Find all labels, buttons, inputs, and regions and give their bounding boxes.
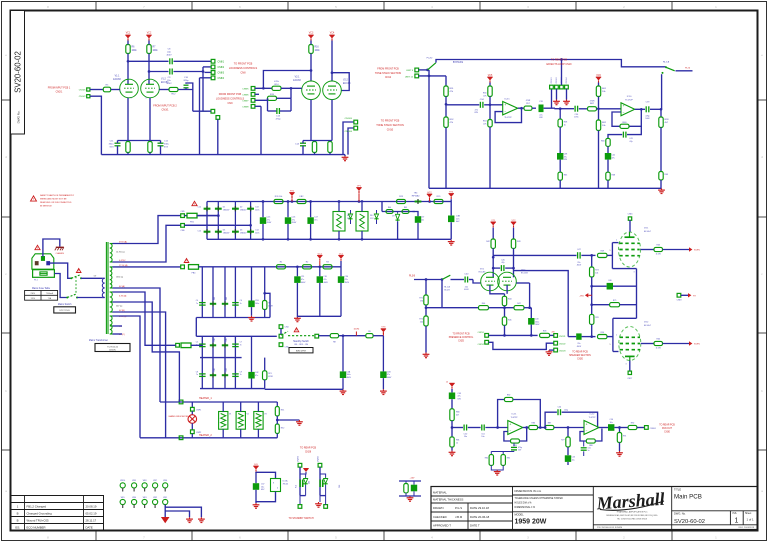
svg-text:DATE T: DATE T: [470, 524, 480, 528]
svg-text:C54: C54: [558, 406, 561, 408]
connector CN21/1: [554, 334, 558, 338]
wire tap to heater1: [113, 288, 161, 402]
wire: [277, 419, 299, 421]
capacitor C34: [479, 102, 481, 108]
wire: [320, 495, 326, 497]
svg-text:VC3: VC3: [309, 33, 314, 35]
svg-text:DRAWN: DRAWN: [433, 506, 443, 510]
svg-text:TX-SV20-60: TX-SV20-60: [107, 346, 119, 348]
connector CN10/6: [354, 126, 358, 130]
svg-text:C4: C4: [196, 300, 198, 302]
warning triangle: [35, 245, 40, 249]
svg-text:TO FRONT PCB: TO FRONT PCB: [381, 120, 400, 123]
svg-text:TO REAR PCB: TO REAR PCB: [659, 423, 675, 426]
svg-text:1k: 1k: [456, 443, 458, 445]
svg-text:78L05: 78L05: [283, 484, 289, 486]
title block: [431, 487, 758, 530]
resistor R81: [450, 437, 454, 447]
diode D12: [210, 303, 216, 305]
cap bank left link: [195, 318, 197, 337]
junction dots: [262, 200, 265, 203]
svg-text:+16V: +16V: [410, 477, 416, 479]
wire: [265, 388, 343, 390]
wire: [661, 74, 663, 109]
svg-text:470p: 470p: [645, 116, 649, 118]
capacitor C45: [505, 267, 513, 269]
resistor R66: [606, 138, 610, 146]
wire: [504, 306, 506, 317]
svg-text:ECC83: ECC83: [521, 273, 529, 275]
svg-text:PRESENCE CONTROL: PRESENCE CONTROL: [449, 337, 474, 339]
svg-text:100n: 100n: [255, 209, 259, 211]
earth wire: [43, 239, 60, 257]
connector CN28/1: [298, 463, 302, 467]
svg-text:D9: D9: [392, 216, 394, 218]
resistor R58: [559, 109, 561, 119]
svg-text:FB1,2 Changed: FB1,2 Changed: [27, 505, 47, 509]
svg-text:10n: 10n: [481, 436, 484, 438]
svg-text:D3: D3: [223, 229, 225, 231]
svg-text:R65: R65: [404, 207, 407, 209]
wire: [303, 140, 332, 142]
standby bus: [196, 335, 276, 337]
terminal SCRN2: [689, 341, 692, 345]
svg-text:R66: R66: [601, 141, 604, 143]
svg-text:−: −: [586, 429, 588, 433]
svg-text:47u: 47u: [314, 219, 317, 221]
wire: [523, 427, 529, 429]
feedback cap C41: [627, 126, 641, 134]
wire: [446, 104, 479, 106]
warning triangle: [31, 196, 37, 201]
supply arrow HT4: [449, 194, 454, 197]
wire: [267, 98, 269, 111]
svg-text:D16: D16: [214, 368, 216, 371]
op-amp IC10: [621, 103, 635, 116]
svg-text:UNIT 9: UNIT 9: [406, 70, 414, 72]
svg-text:400V: 400V: [323, 282, 328, 284]
svg-text:CN8/3: CN8/3: [218, 72, 225, 74]
svg-text:+: +: [509, 422, 511, 426]
wire: [319, 335, 331, 337]
svg-text:1: 1: [735, 518, 739, 525]
svg-text:HEATER_1: HEATER_1: [199, 397, 212, 400]
heater bus 2: [140, 437, 277, 439]
supply arrow: [303, 469, 308, 472]
resistor R63: [654, 247, 663, 251]
svg-text:SV20-60-02: SV20-60-02: [14, 51, 23, 93]
wire: [620, 304, 637, 306]
connector CN2/1: [87, 88, 90, 91]
connector CN8/4: [211, 76, 215, 80]
svg-text:CHECKED: CHECKED: [433, 515, 447, 519]
wire: [90, 96, 102, 154]
wire: [197, 215, 218, 217]
svg-text:WF2: WF2: [153, 497, 157, 499]
cap C4A: [342, 336, 344, 372]
wire: [491, 451, 514, 453]
svg-text:PL20: PL20: [685, 67, 691, 69]
secondary winding 1: [110, 244, 112, 263]
wire: [552, 107, 556, 109]
wire: [641, 108, 645, 110]
diode D11: [305, 474, 307, 478]
wire: [399, 495, 421, 497]
wire: [524, 307, 531, 309]
wire: [81, 277, 102, 279]
svg-text:ECC83: ECC83: [113, 79, 121, 81]
svg-text:47u: 47u: [292, 219, 295, 221]
B+ takeoff 1: [296, 267, 298, 277]
wire: [419, 75, 446, 77]
PSU rail row2: [199, 266, 342, 268]
svg-text:EL34-Z: EL34-Z: [644, 231, 652, 233]
wire: [255, 93, 259, 95]
resistor R28: [397, 199, 406, 203]
svg-text:B: B: [17, 519, 19, 523]
svg-text:400V: 400V: [464, 289, 469, 291]
svg-text:CN10: CN10: [387, 129, 394, 132]
capacitor C47: [577, 252, 579, 258]
svg-text:1N4007: 1N4007: [223, 209, 230, 211]
wire: [451, 389, 453, 393]
svg-text:DWG No.: DWG No.: [17, 110, 21, 123]
wire: [489, 307, 515, 309]
capacitor C9: [169, 69, 171, 75]
capacitor C40: [464, 277, 466, 283]
wire: [373, 335, 383, 337]
connector CN19/2: [555, 85, 559, 89]
feedback loop R60: [629, 109, 641, 126]
tie point WF3: [142, 499, 147, 504]
tie point WF7: [153, 483, 158, 488]
svg-text:LMP1: LMP1: [196, 409, 201, 411]
resistor R46: [479, 306, 489, 310]
svg-text:V2:1: V2:1: [295, 77, 300, 79]
switch dashed link: [288, 335, 314, 337]
svg-text:100V: 100V: [535, 324, 540, 326]
transformer core: [105, 242, 107, 334]
warning triangle: [184, 259, 189, 263]
svg-text:C38: C38: [564, 154, 567, 156]
wire: [310, 41, 312, 45]
ferrite bead FB1: [187, 213, 197, 218]
wire: [197, 215, 219, 217]
connector CN25/1: [485, 334, 489, 338]
svg-text:B: B: [17, 512, 19, 516]
wire: [506, 285, 508, 294]
svg-text:230V: 230V: [30, 293, 35, 295]
resistor R17: [312, 142, 316, 153]
switch gang link: [75, 277, 77, 295]
svg-text:WF7: WF7: [153, 480, 157, 482]
svg-text:100p: 100p: [564, 410, 568, 412]
contact: [662, 72, 664, 74]
svg-text:Mains Transformer: Mains Transformer: [89, 339, 108, 342]
svg-text:TL072P: TL072P: [588, 417, 596, 419]
capacitor C10 loop: [186, 83, 193, 90]
wire: [592, 304, 610, 306]
heater V2: [236, 412, 245, 430]
wire: [425, 326, 427, 353]
svg-text:C11: C11: [301, 276, 304, 278]
svg-text:470R: 470R: [590, 101, 595, 103]
svg-text:D15: D15: [226, 338, 228, 341]
svg-text:VC5: VC5: [488, 75, 493, 77]
svg-text:D17: D17: [226, 368, 228, 371]
svg-text:CN30/1: CN30/1: [650, 428, 656, 430]
resistor R30: [366, 334, 373, 338]
wire: [598, 83, 600, 87]
wire: [681, 294, 688, 296]
svg-text:R45: R45: [508, 320, 511, 322]
wire: [445, 76, 447, 86]
resistor R4: [264, 267, 266, 301]
cathode bottom bar: [625, 355, 635, 357]
wire: [485, 427, 507, 429]
diode D12: [320, 474, 326, 478]
capacitor C58: [413, 481, 415, 485]
wire tap to heater2: [113, 312, 166, 438]
svg-text:7: 7: [158, 92, 159, 94]
cap bank bottom bus: [200, 388, 265, 390]
svg-text:TO REAR PCB: TO REAR PCB: [572, 350, 588, 353]
supply arrow VC7: [317, 256, 322, 259]
wire: [544, 107, 552, 109]
wire: [591, 305, 593, 315]
svg-text:−: −: [504, 109, 506, 113]
resistor R69b: [659, 172, 663, 181]
svg-text:CN9/8: CN9/8: [242, 106, 249, 108]
wire: [489, 334, 538, 336]
svg-text:4k7: 4k7: [456, 415, 459, 417]
wire tap to heater1b: [113, 302, 180, 402]
relay switch RL1:A: [442, 275, 450, 279]
connector CN6: [181, 224, 185, 228]
svg-text:TOLERANCE UNLESS OTHERWISE STA: TOLERANCE UNLESS OTHERWISE STATED: [515, 497, 564, 500]
cap C57: [255, 472, 257, 483]
svg-text:FB5: FB5: [339, 485, 341, 488]
svg-text:R84: R84: [485, 458, 488, 460]
wire: [205, 71, 212, 73]
wire: [436, 60, 666, 67]
rectifier diode column 1: [217, 202, 219, 240]
svg-text:V1:2: V1:2: [161, 79, 166, 81]
ground: [251, 316, 253, 318]
cap bank rail B: [200, 357, 242, 359]
svg-text:TO FRONT PCB: TO FRONT PCB: [452, 333, 469, 335]
capacitor C35: [539, 105, 544, 113]
svg-text:R65: R65: [564, 175, 567, 177]
svg-text:PL2/2: PL2/2: [427, 58, 433, 60]
svg-text:10u: 10u: [610, 422, 613, 424]
connector CN19/1: [550, 85, 554, 89]
resistor R57: [524, 106, 532, 110]
svg-text:C6: C6: [240, 300, 242, 302]
svg-text:C51: C51: [481, 433, 484, 435]
supply arrow VC5: [487, 77, 492, 80]
svg-text:1k 5W: 1k 5W: [656, 254, 661, 256]
capacitor C49: [449, 393, 455, 400]
resistor R48: [540, 333, 550, 337]
svg-text:330u: 330u: [164, 144, 170, 146]
wire: [567, 447, 569, 455]
IEC mains inlet: [32, 254, 54, 269]
svg-text:400V: 400V: [347, 377, 352, 379]
svg-text:47u: 47u: [612, 157, 615, 159]
resistor R62: [596, 120, 600, 131]
supply arrow VC1: [125, 35, 130, 38]
fuse box F1: [33, 270, 55, 278]
wire: [445, 128, 447, 189]
svg-text:CN9/7: CN9/7: [242, 100, 249, 102]
svg-text:Standby Switch: Standby Switch: [293, 340, 310, 343]
filter cap C15: [262, 202, 264, 218]
svg-text:R43: R43: [517, 241, 520, 243]
svg-text:Mains Switch: Mains Switch: [58, 303, 72, 306]
supply arrow VP1: [356, 188, 361, 191]
connector CN9/6: [251, 93, 255, 97]
svg-text:47u: 47u: [564, 156, 567, 158]
live wire: [54, 274, 66, 298]
svg-text:450V: 450V: [267, 222, 272, 224]
wire: [641, 249, 655, 251]
warning triangle: [76, 269, 81, 273]
connector CN3/1: [211, 109, 215, 113]
svg-text:WF8: WF8: [143, 480, 147, 482]
supply arrow VC3: [308, 35, 313, 38]
resistor R84: [490, 452, 492, 455]
wire: [650, 108, 661, 110]
svg-text:CN20: CN20: [577, 358, 584, 360]
svg-text:1959 20W: 1959 20W: [515, 519, 547, 526]
wire: [127, 98, 129, 141]
decoupling cap C1B: [251, 267, 253, 301]
wire: [637, 427, 645, 429]
tie point WF5: [120, 499, 125, 504]
resistor R3: [323, 265, 332, 269]
resistor R44: [504, 294, 506, 297]
wire: [491, 465, 503, 470]
supply arrow VT3: [381, 329, 386, 332]
svg-text:DATE 20-06-18: DATE 20-06-18: [470, 515, 490, 519]
wire: [451, 421, 453, 437]
connector CN21/2: [554, 341, 558, 345]
svg-text:CN8/1: CN8/1: [218, 61, 225, 63]
capacitor C5: [199, 343, 206, 345]
mains switch pole 1: [71, 275, 80, 279]
svg-text:V1:1: V1:1: [115, 76, 120, 78]
rectifier rail bottom: [207, 238, 451, 240]
svg-text:CN9: CN9: [227, 102, 233, 105]
svg-text:1n: 1n: [588, 450, 590, 452]
svg-text:FROM INPUT PCB 2: FROM INPUT PCB 2: [153, 105, 177, 108]
svg-text:SPEAKER SECTION: SPEAKER SECTION: [569, 354, 591, 357]
svg-text:17.5V (A): 17.5V (A): [119, 264, 128, 267]
svg-text:47u: 47u: [458, 396, 461, 398]
wire: [199, 78, 201, 155]
revision table: [11, 496, 104, 531]
wire: [660, 180, 662, 188]
capacitor C12: [158, 142, 164, 144]
wire: [90, 89, 103, 91]
svg-text:R85: R85: [507, 458, 510, 460]
svg-text:1N4007: 1N4007: [223, 232, 230, 234]
resistor R13: [148, 142, 152, 153]
wire: [556, 89, 558, 100]
connector CN6b: [279, 343, 283, 347]
svg-text:PL3/6: PL3/6: [409, 275, 416, 277]
wire: [256, 472, 276, 479]
svg-text:TO REAR PCB: TO REAR PCB: [551, 59, 568, 62]
arrow to standby: [161, 517, 170, 523]
wire: [613, 285, 637, 287]
svg-text:22u: 22u: [539, 114, 542, 116]
wire tap to heater2b: [113, 316, 141, 438]
wire: [159, 89, 169, 91]
capacitor C50: [463, 425, 465, 431]
svg-text:R80: R80: [456, 412, 459, 414]
svg-text:DWG. No.: DWG. No.: [674, 511, 686, 515]
svg-text:1M: 1M: [420, 301, 423, 303]
ground: [298, 420, 300, 422]
svg-text:R75: R75: [613, 300, 616, 302]
wire: [414, 279, 442, 281]
svg-text:3: 3: [626, 364, 627, 366]
svg-text:IC10: IC10: [627, 96, 632, 98]
connector CN8/1: [211, 59, 215, 63]
svg-text:+: +: [504, 103, 506, 107]
wire: [343, 122, 354, 155]
capacitor C13: [276, 108, 278, 114]
wire: [663, 249, 690, 251]
wire: [532, 107, 536, 109]
resistor R7: [147, 45, 151, 54]
supply arrow HT1: [289, 193, 294, 196]
resistor R21: [264, 358, 266, 371]
op-amp IC4:1: [503, 102, 518, 115]
wire: [445, 97, 447, 105]
wire: [436, 60, 666, 67]
svg-text:IN SERVICE: IN SERVICE: [40, 206, 52, 208]
wire: [579, 108, 588, 110]
svg-text:V2:2: V2:2: [343, 80, 348, 82]
svg-text:D14: D14: [214, 338, 216, 341]
supply arrow 16V: [253, 466, 258, 469]
svg-text:10n: 10n: [421, 219, 424, 221]
wire: [348, 128, 354, 155]
heater V1: [219, 412, 228, 430]
svg-text:TONE STACK SECTION: TONE STACK SECTION: [375, 72, 402, 75]
wire: [607, 180, 609, 188]
svg-text:ISS.: ISS.: [733, 512, 738, 515]
resistor R85: [502, 452, 504, 455]
wire: [118, 140, 161, 142]
resistor R92: [405, 481, 407, 484]
neutral wire: [50, 263, 71, 278]
wire: [562, 412, 598, 427]
resistor R68b: [606, 172, 610, 180]
svg-text:7n: 7n: [240, 344, 242, 346]
svg-text:WF4: WF4: [132, 497, 136, 499]
svg-text:FROM FRONT PCB: FROM FRONT PCB: [219, 93, 242, 96]
svg-text:5: 5: [610, 344, 611, 346]
svg-text:400V: 400V: [301, 282, 306, 284]
svg-text:TO STANDBY SWITCH: TO STANDBY SWITCH: [288, 517, 313, 520]
svg-text:C42: C42: [255, 372, 258, 374]
lower input loop: [580, 432, 586, 442]
connector CN30/1: [645, 426, 649, 430]
